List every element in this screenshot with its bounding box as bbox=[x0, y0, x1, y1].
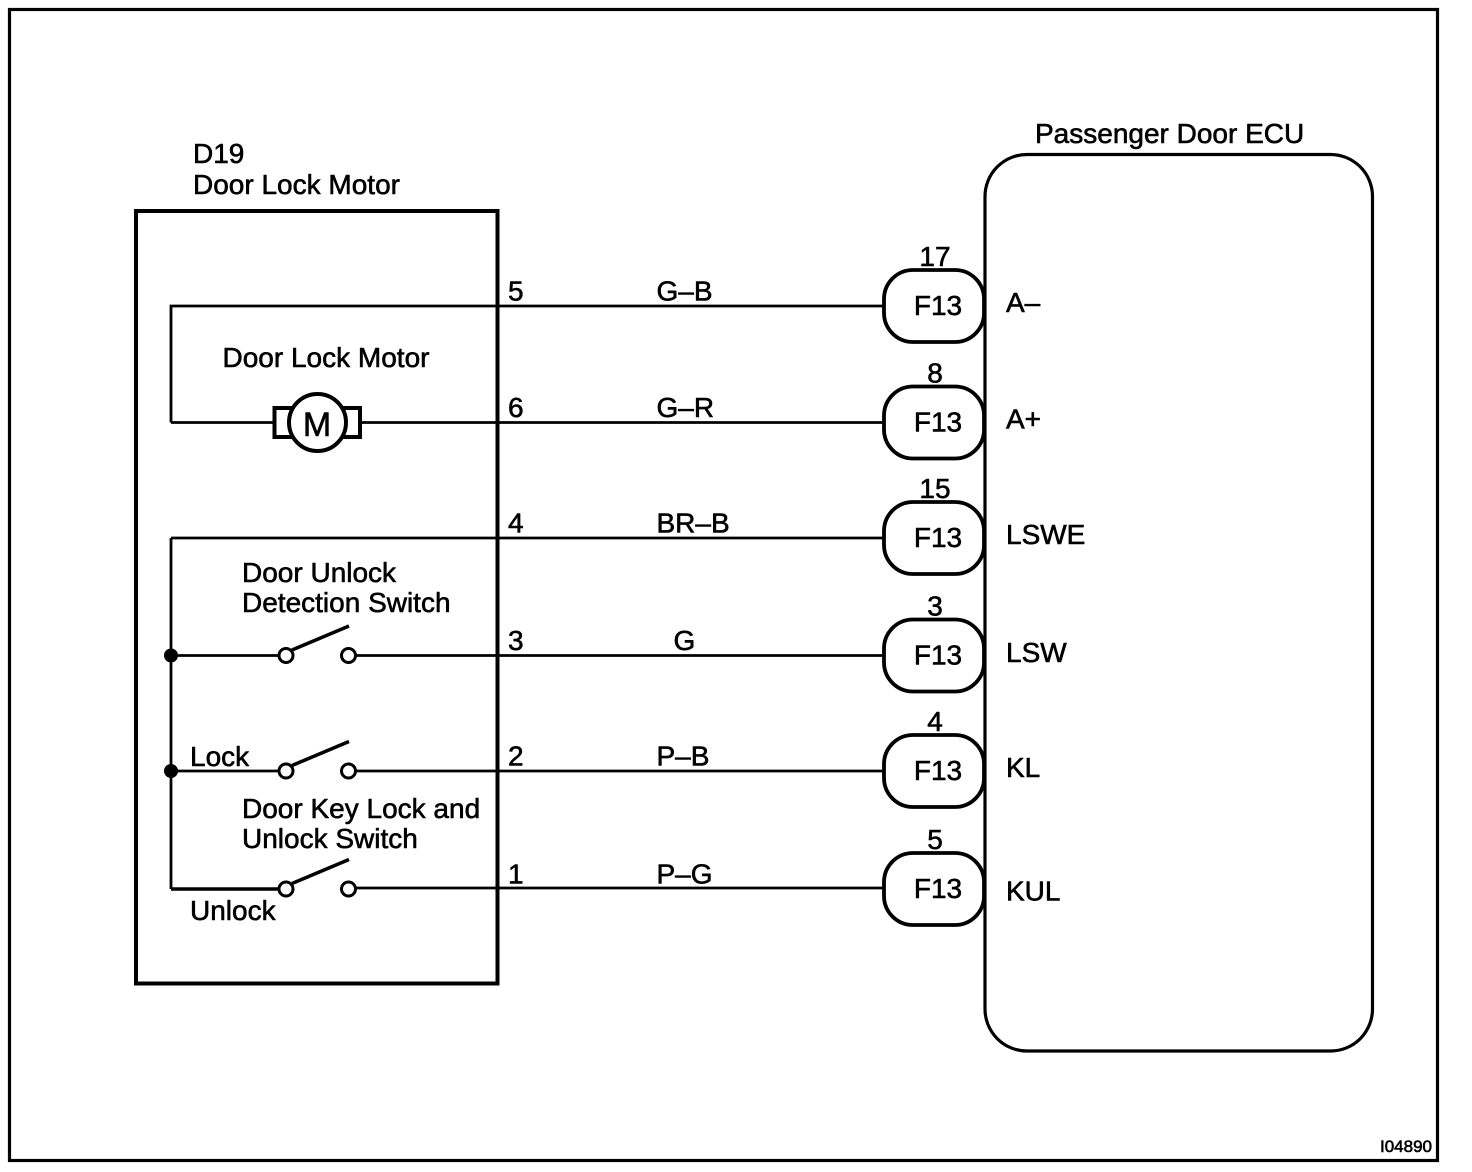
connector F13 pin 4 oval bbox=[884, 735, 984, 807]
motor M1 right brush bbox=[342, 408, 361, 437]
ECU box Passenger Door ECU bbox=[985, 155, 1373, 1052]
svg-text:5: 5 bbox=[508, 276, 524, 307]
svg-text:Door Key Lock and: Door Key Lock and bbox=[242, 793, 480, 824]
svg-text:G–R: G–R bbox=[657, 392, 715, 423]
wire pin3 LSW right segment : G bbox=[356, 654, 884, 657]
svg-text:Door Unlock: Door Unlock bbox=[242, 557, 397, 588]
svg-text:A–: A– bbox=[1006, 287, 1041, 318]
junction dot on bus at KL wire bbox=[164, 764, 178, 778]
svg-text:4: 4 bbox=[508, 508, 524, 539]
svg-text:Lock: Lock bbox=[190, 741, 250, 772]
svg-text:F13: F13 bbox=[914, 522, 962, 553]
connector F13 pin 8 oval bbox=[884, 387, 984, 459]
component box D19 Door Lock Motor bbox=[136, 211, 498, 984]
wire pin1 KUL right segment : P-G bbox=[356, 887, 884, 890]
switch SW2 right contact bbox=[342, 764, 356, 778]
wire pin2 KL right segment : P-B bbox=[356, 770, 884, 773]
svg-text:3: 3 bbox=[927, 591, 943, 622]
motor M1 left brush bbox=[275, 408, 294, 437]
svg-text:15: 15 bbox=[919, 473, 950, 504]
switch SW3 right contact bbox=[342, 882, 356, 896]
svg-text:F13: F13 bbox=[914, 873, 962, 904]
svg-text:Unlock: Unlock bbox=[190, 895, 277, 926]
svg-text:Door Lock Motor: Door Lock Motor bbox=[223, 342, 430, 373]
connector F13 pin 3 oval bbox=[884, 620, 984, 692]
svg-text:KUL: KUL bbox=[1006, 876, 1060, 907]
svg-text:8: 8 bbox=[927, 358, 943, 389]
wire pin6 A+ : motor wire, G-R bbox=[171, 421, 884, 424]
svg-text:M: M bbox=[303, 406, 331, 444]
wire pin3 LSW left segment bbox=[171, 654, 278, 657]
svg-text:Detection Switch: Detection Switch bbox=[242, 587, 451, 618]
svg-text:LSW: LSW bbox=[1006, 637, 1067, 668]
svg-text:F13: F13 bbox=[914, 755, 962, 786]
switch SW3 key unlock: lever bbox=[292, 860, 349, 884]
svg-text:BR–B: BR–B bbox=[657, 508, 730, 539]
connector F13 pin 17 oval bbox=[884, 270, 984, 342]
wire pin4 LSWE : BR-B bbox=[171, 537, 884, 540]
svg-text:Passenger Door ECU: Passenger Door ECU bbox=[1035, 118, 1304, 149]
wire pin2 KL left segment bbox=[171, 770, 278, 773]
switch SW2 key lock: lever bbox=[292, 742, 349, 766]
svg-text:Door Lock Motor: Door Lock Motor bbox=[193, 169, 400, 200]
svg-text:D19: D19 bbox=[193, 138, 244, 169]
svg-text:3: 3 bbox=[508, 625, 524, 656]
svg-text:F13: F13 bbox=[914, 640, 962, 671]
switch SW1 left contact bbox=[279, 649, 293, 663]
svg-text:A+: A+ bbox=[1006, 404, 1041, 435]
svg-text:6: 6 bbox=[508, 392, 524, 423]
junction dot on bus at LSW wire bbox=[164, 649, 178, 663]
switch SW1 door unlock detection: lever bbox=[292, 626, 349, 650]
wire pin1 KUL left segment bbox=[171, 887, 278, 890]
wire pin5 A- : motor loop top, G-B bbox=[171, 306, 884, 423]
connector F13 pin 15 oval bbox=[884, 502, 984, 574]
svg-text:I04890: I04890 bbox=[1380, 1137, 1432, 1156]
svg-text:Unlock Switch: Unlock Switch bbox=[242, 823, 418, 854]
svg-text:LSWE: LSWE bbox=[1006, 519, 1085, 550]
switch SW2 left contact bbox=[279, 764, 293, 778]
switch SW1 right contact bbox=[342, 649, 356, 663]
connector F13 pin 5 oval bbox=[884, 853, 984, 925]
svg-text:1: 1 bbox=[508, 859, 524, 890]
switch SW3 left contact bbox=[279, 882, 293, 896]
motor M1 body bbox=[289, 394, 346, 451]
svg-text:2: 2 bbox=[508, 741, 524, 772]
svg-text:17: 17 bbox=[919, 241, 950, 272]
svg-text:P–G: P–G bbox=[657, 859, 713, 890]
wire bus left vertical (switch common) bbox=[170, 538, 173, 889]
svg-text:G: G bbox=[674, 625, 696, 656]
svg-text:G–B: G–B bbox=[657, 276, 713, 307]
svg-text:F13: F13 bbox=[914, 290, 962, 321]
svg-text:P–B: P–B bbox=[657, 741, 710, 772]
svg-text:4: 4 bbox=[927, 706, 943, 737]
svg-text:F13: F13 bbox=[914, 407, 962, 438]
svg-text:5: 5 bbox=[927, 824, 943, 855]
svg-text:KL: KL bbox=[1006, 752, 1040, 783]
